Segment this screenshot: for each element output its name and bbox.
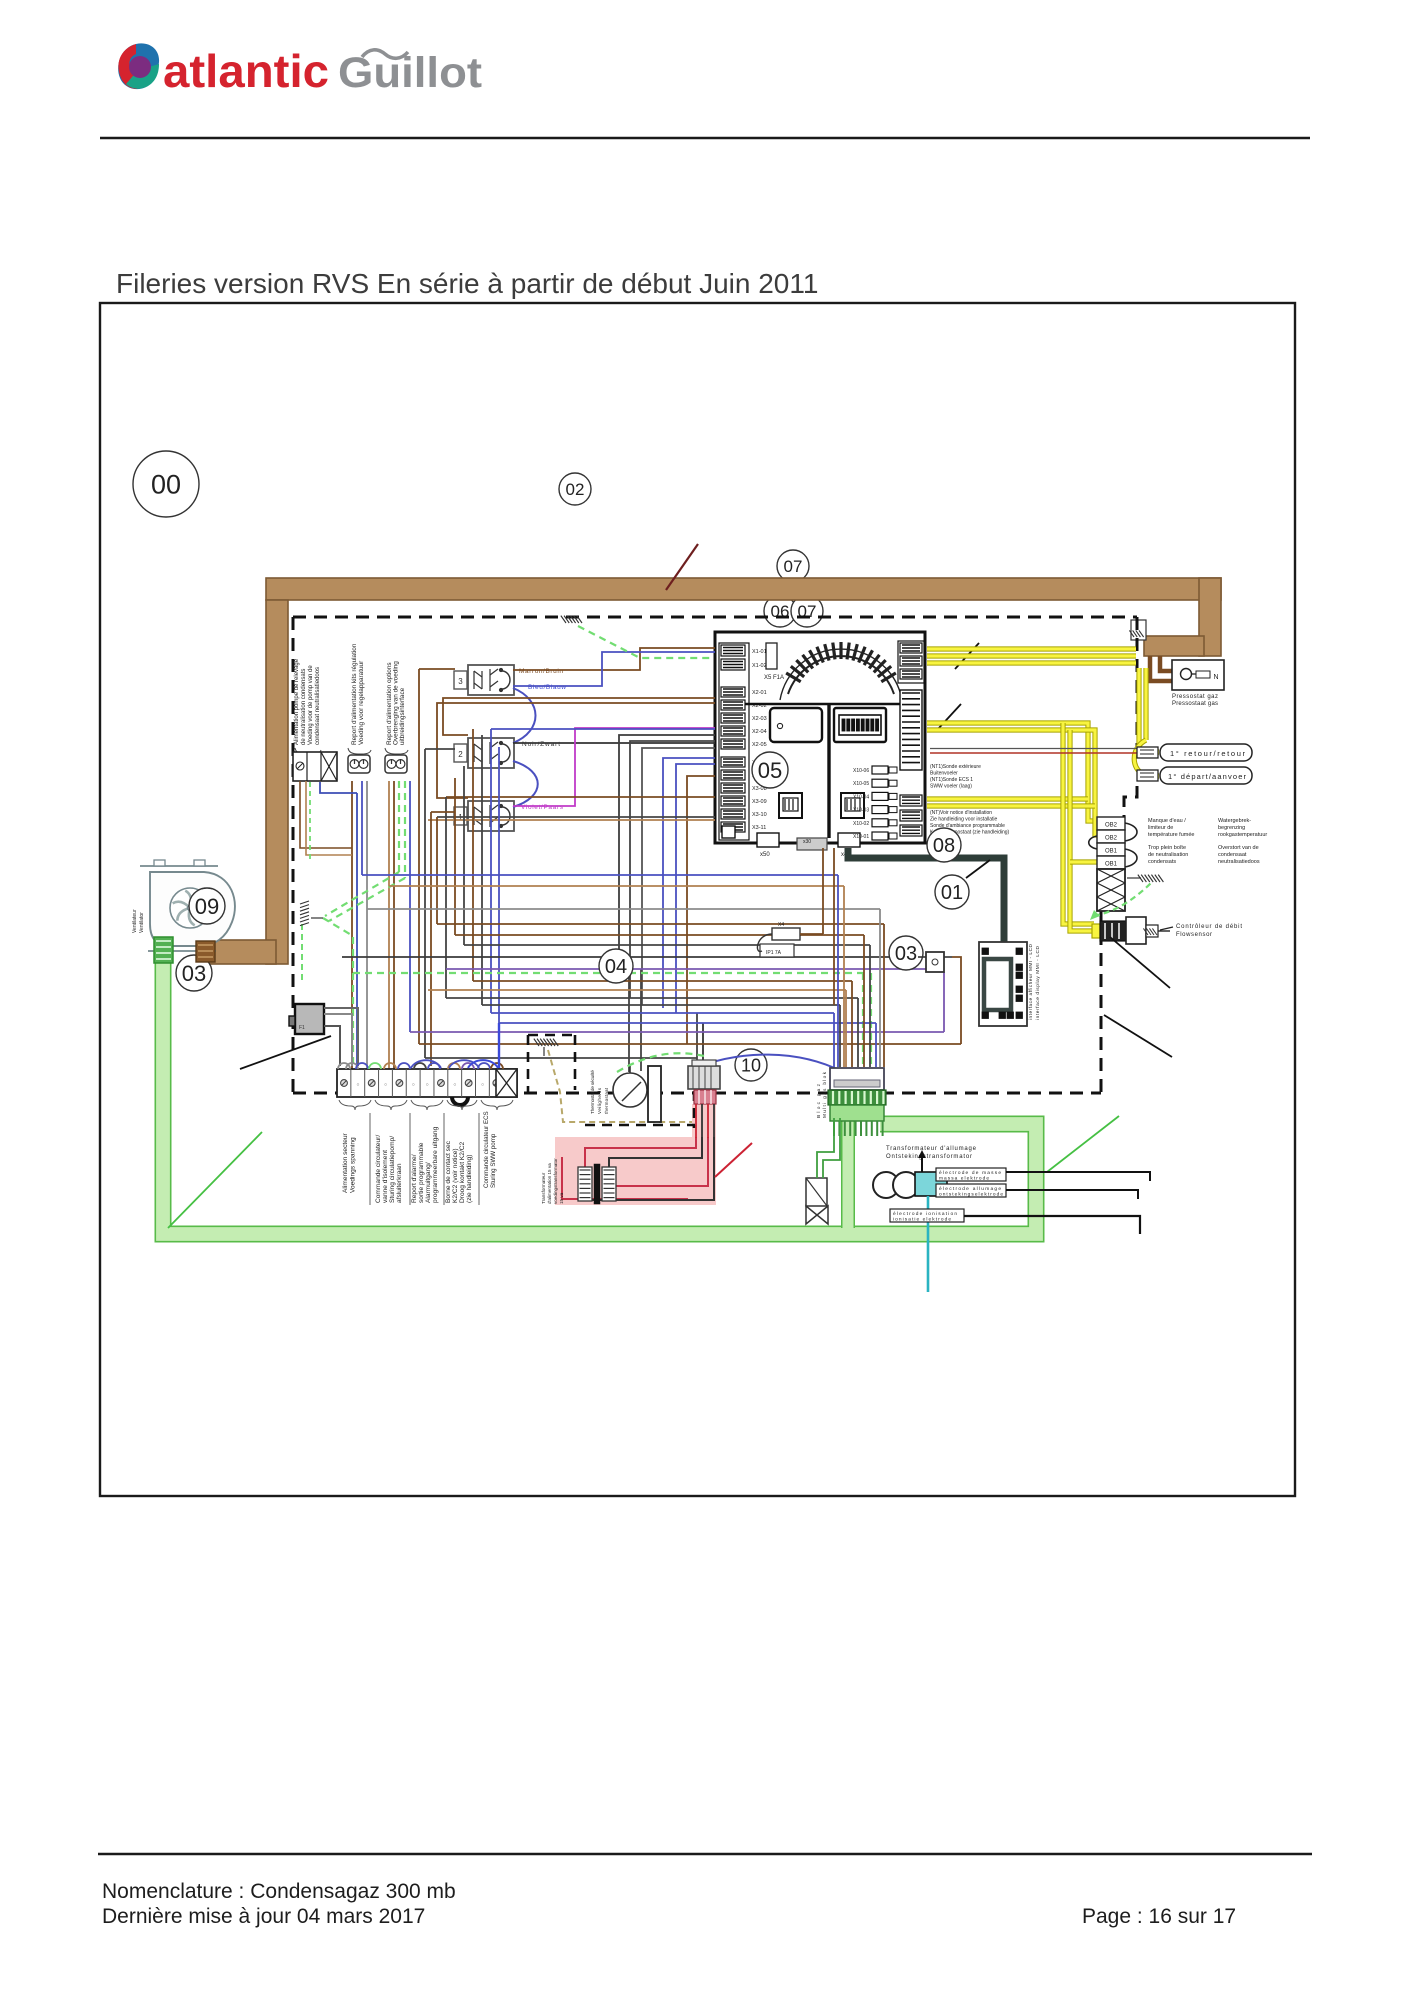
svg-text:X10-06: X10-06 xyxy=(853,768,869,774)
svg-text:X10-01: X10-01 xyxy=(853,834,869,840)
wire K3 blue xyxy=(513,652,715,686)
svg-text:Alimentation secteur: Alimentation secteur xyxy=(342,1132,349,1193)
svg-text:2: 2 xyxy=(458,750,463,759)
svg-text:Nomenclature : Condensagaz 300: Nomenclature : Condensagaz 300 mb xyxy=(102,1880,456,1903)
connector kit regulation xyxy=(348,755,370,773)
node 05 xyxy=(752,752,788,788)
wire dark in5 xyxy=(437,816,715,818)
wire K2 black xyxy=(513,742,715,744)
svg-text:x30: x30 xyxy=(803,839,811,845)
svg-text:Transformateur: Transformateur xyxy=(541,1172,546,1204)
svg-text:Voeding voor de pomp van de: Voeding voor de pomp van de xyxy=(308,665,314,745)
svg-text:1° retour/retour: 1° retour/retour xyxy=(1170,749,1246,758)
svg-text:neutralisatiedoos: neutralisatiedoos xyxy=(1218,859,1260,865)
wire stair 6 xyxy=(687,776,715,1044)
wire blue arc 10 xyxy=(688,1055,843,1072)
svg-text:Marron/Bruin: Marron/Bruin xyxy=(519,668,563,675)
flow sensor B1 xyxy=(1092,917,1242,944)
svg-text:atlantic: atlantic xyxy=(163,45,329,97)
wire brown to comp xyxy=(952,957,961,1044)
electrode label allumage xyxy=(936,1184,1006,1198)
leader dark red xyxy=(666,544,698,590)
wire blue ecs xyxy=(498,1023,500,1068)
svg-text:00: 00 xyxy=(151,470,181,500)
svg-text:○: ○ xyxy=(384,1082,387,1088)
wire brown in4 xyxy=(446,796,715,798)
wire yellow depart loop xyxy=(1134,668,1159,776)
label transfo alim xyxy=(541,1158,564,1204)
svg-text:(NT)Voir notice d'installation: (NT)Voir notice d'installation xyxy=(930,810,992,816)
dashed box thermostat xyxy=(528,1035,575,1093)
wire thick brown supply loop xyxy=(206,578,1221,964)
leader lines right xyxy=(1104,937,1172,1057)
svg-text:Violet/Paars: Violet/Paars xyxy=(521,804,564,811)
node 07b xyxy=(791,595,823,627)
svg-text:Ontstekingstransformator: Ontstekingstransformator xyxy=(886,1154,972,1160)
svg-text:Bleu/Blauw: Bleu/Blauw xyxy=(528,684,566,691)
svg-text:X10-05: X10-05 xyxy=(853,781,869,787)
wire K3 brown xyxy=(513,648,715,670)
svg-text:X1-01: X1-01 xyxy=(752,649,767,655)
svg-text:15 va: 15 va xyxy=(559,1192,564,1204)
svg-text:07: 07 xyxy=(784,557,803,576)
svg-text:Sturing SWW pomp: Sturing SWW pomp xyxy=(490,1133,497,1188)
svg-text:Veiligheids: Veiligheids xyxy=(597,1087,602,1114)
svg-text:Alimentation pompe de relevage: Alimentation pompe de relevage xyxy=(294,658,300,745)
svg-text:X1-02: X1-02 xyxy=(752,663,767,669)
wire K1 violet xyxy=(513,728,715,806)
svg-text:ionisatie elektrode: ionisatie elektrode xyxy=(893,1217,951,1223)
labels under strip xyxy=(342,1111,497,1205)
label display xyxy=(1028,943,1041,1020)
connector plug pink xyxy=(688,1060,720,1089)
svg-text:Ventilateur: Ventilateur xyxy=(132,909,138,933)
svg-text:○: ○ xyxy=(453,1082,456,1088)
svg-text:08: 08 xyxy=(933,835,955,857)
svg-text:X4: X4 xyxy=(778,922,784,928)
svg-text:interface afficheur MMI - LCD: interface afficheur MMI - LCD xyxy=(1028,943,1034,1020)
svg-text:Dernière mise à jour 04 mars 2: Dernière mise à jour 04 mars 2017 xyxy=(102,1905,425,1928)
ground near neutralizer xyxy=(1127,875,1163,882)
wire thermostat feeds xyxy=(629,957,641,1072)
svg-text:○: ○ xyxy=(412,1082,415,1088)
leader red xyxy=(715,1143,752,1177)
svg-text:X3-09: X3-09 xyxy=(752,799,767,805)
wires green to valve xyxy=(817,1118,840,1178)
label sonde block xyxy=(930,764,981,790)
label ventilateur xyxy=(132,909,145,933)
outer frame xyxy=(100,303,1295,1496)
wires drops to gas connector xyxy=(834,875,884,1067)
neutralizer coil xyxy=(1097,869,1125,911)
svg-text:K2/C2 (voir notice): K2/C2 (voir notice) xyxy=(452,1148,459,1203)
svg-text:Flowsensor: Flowsensor xyxy=(1176,932,1212,938)
svg-text:X10-04: X10-04 xyxy=(853,794,869,800)
svg-text:Voedings spanning: Voedings spanning xyxy=(350,1137,357,1193)
svg-text:X2-03: X2-03 xyxy=(752,716,767,722)
plug lower striped xyxy=(694,1090,716,1104)
svg-text:Sturing circulatiepomp/: Sturing circulatiepomp/ xyxy=(389,1136,396,1203)
svg-text:ontstekingselektrode: ontstekingselektrode xyxy=(939,1192,1003,1198)
dashed box thermostat lower xyxy=(585,1091,695,1128)
svg-text:X3-11: X3-11 xyxy=(752,825,766,831)
svg-text:Transformateur d'allumage: Transformateur d'allumage xyxy=(886,1146,977,1152)
wire blue in1 xyxy=(491,728,715,730)
node 03 comp xyxy=(889,936,923,970)
wire stair 4 xyxy=(663,758,715,1008)
svg-text:begrenzing: begrenzing xyxy=(1218,825,1245,831)
svg-text:condensaat: condensaat xyxy=(1218,852,1247,858)
wire plug feeds xyxy=(697,1013,703,1062)
leader green left xyxy=(168,1132,262,1228)
wires horizontal bundle xyxy=(342,875,961,1058)
svg-text:(NT1)Sonde extérieure: (NT1)Sonde extérieure xyxy=(930,764,981,770)
wire blue arc K2-K1 xyxy=(513,761,538,807)
svg-text:électrode ionisation: électrode ionisation xyxy=(893,1211,957,1217)
hatch top xyxy=(561,616,582,623)
svg-text:programmeerbare uitgang: programmeerbare uitgang xyxy=(432,1126,439,1203)
pressostat gaz S2 xyxy=(1172,660,1224,707)
wire loop brown b xyxy=(437,703,715,798)
sensor T retour xyxy=(1137,744,1252,761)
wire brown in6 xyxy=(428,819,715,821)
svg-text:(zie handleiding): (zie handleiding) xyxy=(466,1155,473,1203)
svg-text:OB1: OB1 xyxy=(1105,849,1118,855)
footer date xyxy=(102,1905,425,1928)
svg-text:X10-02: X10-02 xyxy=(853,821,869,827)
component B7 xyxy=(918,952,952,972)
svg-text:voedingstransformator: voedingstransformator xyxy=(553,1158,558,1204)
svg-text:Multi gas blok: Multi gas blok xyxy=(822,1071,828,1118)
svg-text:Buitenvoeler: Buitenvoeler xyxy=(930,771,958,777)
display interface HMI xyxy=(979,942,1027,1026)
connector pump neutralisation xyxy=(293,752,337,781)
leader 01 xyxy=(966,860,990,878)
label thermostat xyxy=(590,1070,609,1114)
electrode label masse xyxy=(936,1168,1006,1182)
svg-text:Fileries version RVS En série: Fileries version RVS En série à partir d… xyxy=(116,268,818,299)
braces strip groups xyxy=(339,1100,513,1110)
svg-text:SWW voeler (laag): SWW voeler (laag) xyxy=(930,784,972,790)
connector options xyxy=(385,755,407,773)
wire hops at strip xyxy=(338,1060,503,1069)
svg-text:rookgastemperatuur: rookgastemperatuur xyxy=(1218,832,1267,838)
header rule xyxy=(100,137,1310,140)
svg-text:Contrôleur de débit: Contrôleur de débit xyxy=(1176,924,1242,930)
svg-text:N: N xyxy=(1213,674,1218,681)
labels OB xyxy=(1148,818,1267,865)
relay K2 xyxy=(454,738,514,768)
node 08 xyxy=(927,828,961,862)
wire violet to comp xyxy=(943,972,945,1032)
thermostat securite S3 xyxy=(613,1066,661,1122)
connector fan brown xyxy=(196,941,215,962)
svg-text:Report d'alarme/: Report d'alarme/ xyxy=(411,1154,418,1203)
svg-text:Overstort van de: Overstort van de xyxy=(1218,845,1259,851)
svg-text:Commande circulateur ECS: Commande circulateur ECS xyxy=(483,1111,490,1188)
logo atlantic Guillot xyxy=(118,43,482,97)
svg-text:vanne d'isolement: vanne d'isolement xyxy=(382,1150,389,1203)
dashed boundary left xyxy=(292,617,295,1093)
node 00 xyxy=(133,451,199,517)
wire blue arc K3-K2 xyxy=(513,688,536,743)
label Violet/Paars xyxy=(521,804,564,811)
label Bleu/Blauw xyxy=(528,684,566,691)
svg-text:OB2: OB2 xyxy=(1105,836,1118,842)
svg-text:Ventilator: Ventilator xyxy=(139,912,145,933)
svg-text:Trop plein boîte: Trop plein boîte xyxy=(1148,845,1186,851)
wire pale green gas branch xyxy=(841,1120,855,1228)
wire cyan xyxy=(927,1196,930,1292)
wires green dashed earth xyxy=(300,781,871,1070)
svg-text:F1: F1 xyxy=(299,1025,305,1031)
svg-text:Watergebrek-: Watergebrek- xyxy=(1218,818,1251,824)
label bloc gaz xyxy=(816,1071,828,1118)
wire stair 3 xyxy=(642,748,715,1005)
wires vertical bundle relays xyxy=(419,669,499,1066)
wire yellow X10 pair xyxy=(927,799,1095,806)
svg-text:Guillot: Guillot xyxy=(338,49,482,97)
green dashed to flowsensor xyxy=(1090,882,1152,920)
title xyxy=(116,268,818,299)
svg-text:Pressostat gaz: Pressostat gaz xyxy=(1172,694,1218,700)
dashed boundary bottom xyxy=(293,1092,1101,1095)
svg-text:Voeding voor regelapparatuur: Voeding voor regelapparatuur xyxy=(358,660,365,745)
label Noir/Zwart xyxy=(522,741,560,748)
fan M1 ventilateur xyxy=(140,860,235,951)
node 01 xyxy=(935,875,969,909)
svg-text:1° départ/aanvoer: 1° départ/aanvoer xyxy=(1168,772,1247,781)
svg-text:X10-03: X10-03 xyxy=(853,808,869,814)
terminal strip X1 xyxy=(337,1069,517,1097)
svg-text:05: 05 xyxy=(758,758,782,783)
node 07 top xyxy=(777,550,809,582)
svg-text:03: 03 xyxy=(895,943,917,965)
filter box Z1 xyxy=(289,1004,324,1034)
svg-text:10: 10 xyxy=(741,1055,761,1075)
label notice block xyxy=(930,810,1010,836)
transformer alimentation area xyxy=(555,1104,716,1205)
svg-text:Manque d'eau /: Manque d'eau / xyxy=(1148,818,1186,824)
svg-text:Pressostaat gas: Pressostaat gas xyxy=(1172,701,1218,707)
svg-text:(NT1)Sonde ECS 1: (NT1)Sonde ECS 1 xyxy=(930,777,973,783)
junction block X pressostat xyxy=(1129,620,1146,640)
footer page xyxy=(1082,1905,1236,1928)
leader yellow mid xyxy=(938,704,961,729)
svg-text:de neutralisation: de neutralisation xyxy=(1148,852,1188,858)
wire loop brown a xyxy=(443,698,715,735)
wires filter box xyxy=(324,1008,358,1066)
svg-text:x50: x50 xyxy=(760,852,770,858)
svg-text:Droog kontakt K2/C2: Droog kontakt K2/C2 xyxy=(459,1141,466,1203)
dashed boundary right xyxy=(1101,617,1137,1093)
controller board U1 (LMS14) xyxy=(715,632,925,858)
fuse X4 xyxy=(757,848,823,957)
wire pale green main loop xyxy=(163,960,1036,1234)
wire stair 5 xyxy=(676,764,715,1013)
wire yellow flow pair xyxy=(1063,723,1097,931)
svg-text:02: 02 xyxy=(566,480,585,499)
svg-text:Zie handleiding voor installat: Zie handleiding voor installatie xyxy=(930,817,997,823)
svg-text:OB1: OB1 xyxy=(1105,862,1118,868)
svg-text:Borne de contact sec: Borne de contact sec xyxy=(445,1140,452,1203)
svg-text:X2-01: X2-01 xyxy=(752,690,767,696)
ignition arrow xyxy=(918,1150,926,1172)
footer rule xyxy=(98,1853,1312,1856)
connector gas block xyxy=(828,1068,886,1136)
svg-text:IP1 7A: IP1 7A xyxy=(766,950,782,956)
terminals OB2/OB1 xyxy=(1089,817,1137,869)
svg-text:afsluiterkraan: afsluiterkraan xyxy=(396,1163,403,1203)
dashed boundary top xyxy=(293,616,1137,619)
svg-text:OB2: OB2 xyxy=(1105,823,1118,829)
svg-text:3: 3 xyxy=(458,677,463,686)
wire ionisation xyxy=(964,1216,1140,1234)
labels left columns xyxy=(294,643,406,745)
svg-text:Report d'alimentation kits rég: Report d'alimentation kits régulation xyxy=(351,643,358,745)
connector fan green xyxy=(154,937,173,963)
ignition cyan box xyxy=(915,1172,947,1196)
svg-text:thermostaat: thermostaat xyxy=(604,1087,609,1114)
footer nomenclature xyxy=(102,1880,456,1903)
svg-text:01: 01 xyxy=(941,882,963,904)
node 09 xyxy=(189,888,225,924)
svg-text:condensats: condensats xyxy=(1148,859,1176,865)
wire yellow bus top xyxy=(927,649,1159,752)
svg-text:X3-10: X3-10 xyxy=(752,812,767,818)
cable bus display xyxy=(848,848,1004,945)
electrode label ionisation xyxy=(890,1209,964,1223)
svg-text:Thermostat de sécurité: Thermostat de sécurité xyxy=(590,1070,595,1114)
node 03 fan xyxy=(176,955,212,991)
svg-text:03: 03 xyxy=(182,961,206,986)
wires pump down xyxy=(300,781,357,860)
wire khaki dashed xyxy=(548,1050,694,1122)
svg-text:sortie programmable: sortie programmable xyxy=(418,1142,425,1203)
wires plug to pink xyxy=(696,1104,714,1138)
black bump under strip xyxy=(452,1097,468,1105)
svg-text:électrode de masse: électrode de masse xyxy=(939,1170,1001,1176)
svg-text:Noir/Zwart: Noir/Zwart xyxy=(522,741,560,748)
svg-text:électrode allumage: électrode allumage xyxy=(939,1186,1001,1192)
svg-text:Alarmuitgang/: Alarmuitgang/ xyxy=(425,1162,432,1203)
node 10 xyxy=(735,1049,767,1081)
wire brown pressostat leads xyxy=(1150,656,1174,681)
wire green dashed 10 xyxy=(617,1053,704,1072)
relay K1 xyxy=(454,801,514,831)
svg-text:04: 04 xyxy=(605,956,627,978)
green dashed top xyxy=(578,626,714,658)
leader yellow top xyxy=(955,643,979,669)
sensor T depart xyxy=(1137,767,1252,784)
svg-text:X5 F1A: X5 F1A xyxy=(764,675,784,681)
label Marron/Bruin xyxy=(519,668,563,675)
node 02 xyxy=(559,473,591,505)
label transfo allumage xyxy=(886,1146,977,1160)
svg-text:température fumée: température fumée xyxy=(1148,832,1194,838)
svg-text:○: ○ xyxy=(356,1082,359,1088)
node 06 xyxy=(764,595,796,627)
svg-text:○: ○ xyxy=(481,1082,484,1088)
svg-text:X2-04: X2-04 xyxy=(752,729,767,735)
svg-text:Page : 16 sur 17: Page : 16 sur 17 xyxy=(1082,1905,1236,1928)
svg-text:uitbreidingsinterface: uitbreidingsinterface xyxy=(399,687,406,745)
svg-text:09: 09 xyxy=(195,894,219,919)
wire red sensor xyxy=(930,749,1137,754)
svg-text:de neutralisation condensats: de neutralisation condensats xyxy=(301,669,307,745)
wire stair 1 xyxy=(619,735,715,957)
svg-text:condensaat neutralisatiedoos: condensaat neutralisatiedoos xyxy=(315,667,321,745)
svg-text:Commande circulateur/: Commande circulateur/ xyxy=(375,1135,382,1203)
svg-text:d'alimentation 15 va: d'alimentation 15 va xyxy=(547,1163,552,1204)
svg-text:○: ○ xyxy=(426,1082,429,1088)
leader green right xyxy=(1047,1116,1119,1172)
wires vertical bundle connectors xyxy=(352,781,410,1069)
wire brown comp xyxy=(833,848,835,1005)
ignition transformer T1 xyxy=(873,1172,919,1198)
svg-text:massa elektrode: massa elektrode xyxy=(939,1176,989,1182)
svg-text:X2-05: X2-05 xyxy=(752,742,767,748)
braces left connectors xyxy=(295,748,408,754)
wires electrodes xyxy=(1006,1172,1150,1199)
gas valve Y1 xyxy=(806,1178,828,1224)
leader to strip xyxy=(240,1036,331,1069)
relay K3 xyxy=(454,665,514,695)
node 04 xyxy=(599,949,633,983)
svg-text:limiteur de: limiteur de xyxy=(1148,825,1173,831)
wire stair 2 xyxy=(630,741,715,998)
svg-text:interface display MMI - LCD: interface display MMI - LCD xyxy=(1035,945,1041,1020)
wire yellow OB pair xyxy=(927,723,1097,835)
